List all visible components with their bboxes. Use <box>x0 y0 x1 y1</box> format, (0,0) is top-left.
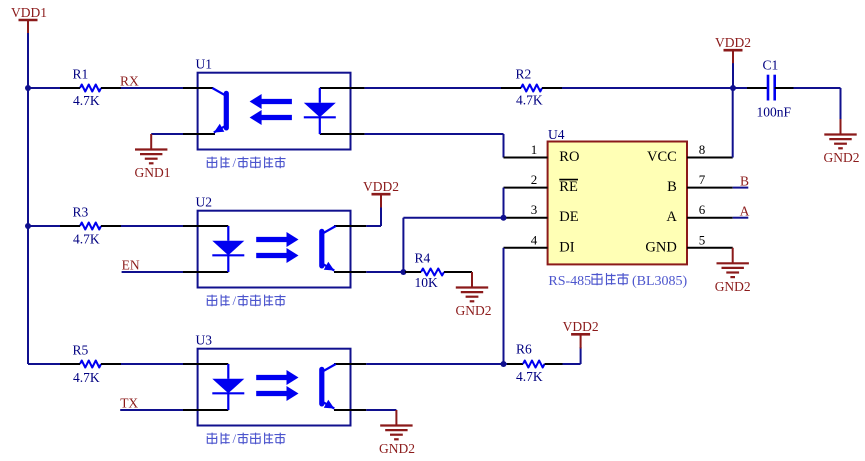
svg-text:U3: U3 <box>196 333 213 348</box>
svg-text:RE: RE <box>559 179 578 195</box>
svg-text:4.7K: 4.7K <box>516 93 543 108</box>
svg-text:C1: C1 <box>763 58 779 73</box>
svg-text:7: 7 <box>699 172 706 187</box>
svg-text:1: 1 <box>531 142 538 157</box>
svg-text:6: 6 <box>699 202 706 217</box>
svg-text:R6: R6 <box>516 342 532 357</box>
svg-text:EN: EN <box>122 257 140 272</box>
svg-text:GND2: GND2 <box>715 279 751 294</box>
svg-text:100nF: 100nF <box>757 105 792 120</box>
svg-text:GND1: GND1 <box>135 165 171 180</box>
svg-text:GND2: GND2 <box>456 303 492 318</box>
svg-text:VDD2: VDD2 <box>715 35 751 50</box>
svg-text:5: 5 <box>699 232 706 247</box>
svg-text:/: / <box>233 293 237 308</box>
svg-text:DI: DI <box>559 239 574 255</box>
svg-text:/: / <box>233 155 237 170</box>
svg-text:VDD2: VDD2 <box>563 319 599 334</box>
svg-text:B: B <box>667 179 677 195</box>
svg-text:U4: U4 <box>548 127 565 142</box>
svg-text:GND2: GND2 <box>379 441 415 456</box>
svg-text:U1: U1 <box>196 57 213 72</box>
svg-text:VCC: VCC <box>647 149 677 165</box>
svg-text:(BL3085): (BL3085) <box>632 274 688 289</box>
svg-text:R1: R1 <box>73 67 89 82</box>
svg-text:A: A <box>666 209 677 225</box>
svg-text:RO: RO <box>559 149 579 165</box>
svg-text:A: A <box>740 203 750 218</box>
svg-text:RX: RX <box>120 73 139 88</box>
svg-text:U2: U2 <box>196 195 213 210</box>
svg-text:R2: R2 <box>516 67 532 82</box>
svg-text:10K: 10K <box>415 275 439 290</box>
svg-text:DE: DE <box>559 209 578 225</box>
svg-text:GND: GND <box>645 239 676 255</box>
svg-text:B: B <box>740 173 749 188</box>
svg-text:4.7K: 4.7K <box>73 93 100 108</box>
svg-text:/: / <box>233 431 237 446</box>
svg-text:R3: R3 <box>73 205 89 220</box>
svg-text:4.7K: 4.7K <box>73 232 100 247</box>
svg-text:VDD1: VDD1 <box>11 5 47 20</box>
svg-text:8: 8 <box>699 142 706 157</box>
svg-text:RS-485: RS-485 <box>548 274 591 289</box>
svg-text:R4: R4 <box>415 250 431 265</box>
svg-text:TX: TX <box>120 395 138 410</box>
svg-text:4: 4 <box>531 232 538 247</box>
svg-text:4.7K: 4.7K <box>73 370 100 385</box>
svg-text:3: 3 <box>531 202 538 217</box>
svg-text:4.7K: 4.7K <box>516 369 543 384</box>
svg-text:R5: R5 <box>73 343 89 358</box>
svg-text:GND2: GND2 <box>824 150 860 165</box>
svg-text:VDD2: VDD2 <box>363 179 399 194</box>
svg-text:2: 2 <box>531 172 538 187</box>
